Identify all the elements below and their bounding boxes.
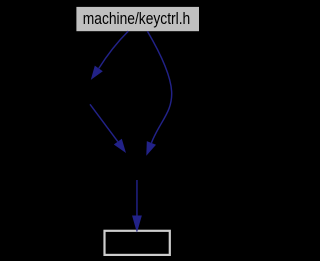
wire edge4: hidden node B down to bottom node bbox=[132, 180, 142, 233]
node bottom (unlabeled box) bbox=[105, 231, 170, 255]
svg-text:machine/keyctrl.h: machine/keyctrl.h bbox=[83, 10, 191, 28]
node machine/keyctrl.h bbox=[76, 7, 199, 31]
wire edge3: hidden node A to hidden node B bbox=[90, 104, 126, 153]
wire edge2: keyctrl.h curved to hidden node B bbox=[146, 31, 171, 156]
wire edge1: keyctrl.h to hidden node A bbox=[91, 31, 129, 80]
